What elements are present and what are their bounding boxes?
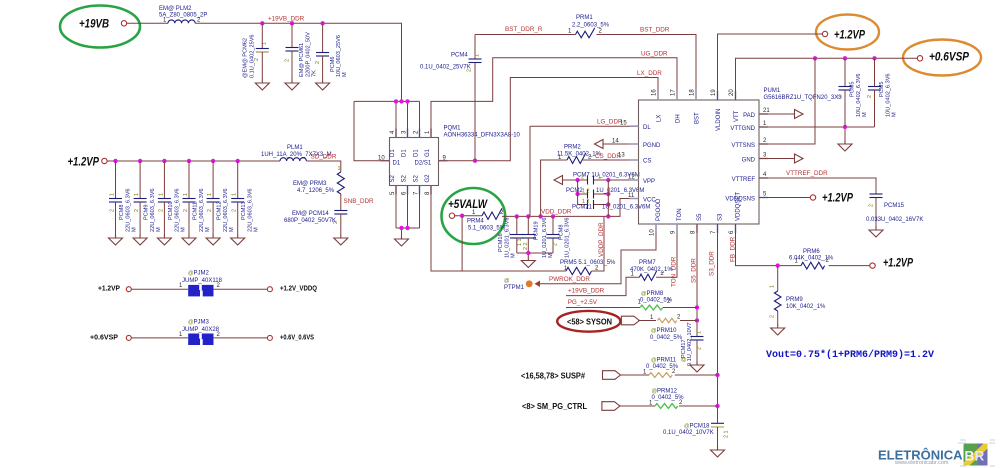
power symbol +19VB: [60, 6, 140, 48]
svg-text:+19VB_DDR: +19VB_DDR: [568, 287, 605, 294]
svg-text:D1: D1: [393, 161, 401, 167]
svg-text:TON_DDR: TON_DDR: [671, 256, 678, 287]
capacitor PCM7 (VPP): [554, 173, 640, 185]
ground (VDD caps): [521, 257, 535, 268]
inductor PLM1: [261, 145, 332, 161]
svg-text:PRM4: PRM4: [467, 219, 484, 225]
svg-text:470K_0402_1%: 470K_0402_1%: [630, 267, 673, 273]
wire +19VB to PLM2: [127, 22, 168, 24]
svg-text:0_0402_5%: 0_0402_5%: [650, 335, 683, 341]
svg-text:EM@ PLM2: EM@ PLM2: [159, 6, 192, 12]
capacitor PCM61: [285, 23, 318, 79]
svg-text:22U_0603_6.3V6: 22U_0603_6.3V6: [150, 188, 156, 232]
capacitor PCM62: [243, 23, 269, 79]
svg-text:D1: D1: [414, 149, 420, 157]
svg-text:2: 2: [414, 130, 420, 134]
svg-text:21: 21: [763, 108, 770, 114]
ground (PCM15): [869, 226, 883, 237]
svg-text:+0.6VSP: +0.6VSP: [90, 335, 118, 342]
svg-text:+1.2VP: +1.2VP: [834, 30, 865, 42]
wire BST_DDR_R: [475, 34, 571, 36]
svg-text:0.033U_0402_16V7K: 0.033U_0402_16V7K: [866, 217, 923, 223]
wire VTT rail to +0.6VSP: [736, 58, 918, 100]
svg-text:14: 14: [612, 139, 619, 145]
svg-text:EM@ PRM3: EM@ PRM3: [293, 181, 327, 187]
svg-text:M: M: [132, 227, 138, 232]
wire +19VB bus to D1 pins: [354, 101, 420, 137]
wire S3 column: [717, 224, 719, 423]
svg-text:1 2: 1 2: [582, 199, 590, 205]
svg-text:22U_0603_6.3V6: 22U_0603_6.3V6: [174, 188, 180, 232]
ground (PCM6): [316, 79, 330, 90]
svg-text:2 2: 2 2: [523, 243, 529, 251]
svg-text:PCM11: PCM11: [193, 202, 199, 220]
capacitor PCM6: [315, 23, 348, 79]
wire cap bottoms bus: [517, 253, 553, 257]
capacitor PCM8: [109, 161, 138, 234]
svg-text:PAD: PAD: [743, 113, 756, 119]
svg-text:2: 2: [207, 209, 213, 212]
svg-text:PCM15: PCM15: [884, 203, 905, 209]
svg-text:+19VB: +19VB: [79, 19, 109, 31]
svg-text:M: M: [548, 253, 554, 258]
ground (PCM8): [109, 234, 123, 245]
svg-text:VTTREF: VTTREF: [732, 177, 756, 183]
svg-text:B: B: [965, 449, 975, 464]
svg-text:PCM5: PCM5: [879, 81, 885, 97]
svg-text:2: 2: [232, 209, 238, 212]
svg-text:7: 7: [414, 191, 420, 195]
svg-text:VTTREF_DDR: VTTREF_DDR: [786, 170, 828, 177]
node dots S5: [695, 305, 699, 309]
wire S5 column: [696, 224, 698, 337]
svg-text:VTT: VTT: [734, 110, 740, 122]
svg-text:PRM9: PRM9: [786, 297, 803, 303]
svg-text:10U_0402_6.3V6: 10U_0402_6.3V6: [856, 73, 862, 117]
ground (PRM9): [771, 324, 785, 335]
svg-text:+19VB_DDR: +19VB_DDR: [268, 16, 305, 23]
svg-text:3: 3: [763, 153, 767, 159]
svg-text:PGND: PGND: [643, 143, 661, 149]
svg-text:@PRM11: @PRM11: [651, 358, 677, 364]
svg-text:1: 1: [183, 193, 189, 196]
svg-text:PCM13: PCM13: [241, 201, 247, 220]
node dots VDD_DDR: [515, 214, 519, 218]
svg-text:+1.2VP: +1.2VP: [68, 157, 100, 169]
svg-text:@PJM2: @PJM2: [188, 271, 209, 277]
svg-text:VLDOIN: VLDOIN: [716, 109, 722, 131]
svg-text:10U_0402_6.3V6: 10U_0402_6.3V6: [886, 73, 892, 117]
svg-text:10K_0402_1%: 10K_0402_1%: [786, 304, 826, 310]
svg-text:SNB_DDR: SNB_DDR: [344, 198, 375, 205]
svg-text:15: 15: [620, 121, 627, 127]
svg-text:PRM5 5.1_0603_5%: PRM5 5.1_0603_5%: [560, 260, 616, 266]
transistor PQM1 (dual MOSFET): [378, 126, 521, 196]
capacitor PCM17: [681, 322, 704, 366]
svg-text:1: 1: [598, 175, 601, 181]
svg-text:PCM19: PCM19: [534, 221, 540, 240]
svg-text:PCM4: PCM4: [451, 53, 468, 59]
capacitor PCM21: [572, 199, 650, 211]
svg-text:0.1U_0402_25V7K: 0.1U_0402_25V7K: [420, 65, 471, 71]
svg-text:2: 2: [581, 175, 584, 181]
node dots VPP row: [575, 178, 579, 182]
wire SUSP row: [621, 374, 650, 376]
svg-text:@PRM12: @PRM12: [652, 389, 678, 395]
svg-text:<8> SM_PG_CTRL: <8> SM_PG_CTRL: [522, 402, 587, 411]
resistor PRM9: [770, 266, 827, 324]
resistor PRM1: [568, 15, 610, 38]
svg-text:PRM7: PRM7: [639, 260, 656, 266]
svg-text:+1.2VP: +1.2VP: [883, 258, 913, 270]
svg-text:2: 2: [679, 400, 683, 406]
svg-text:S3: S3: [718, 213, 724, 221]
node dot VTTGND: [843, 125, 847, 129]
svg-text:2: 2: [677, 315, 681, 321]
capacitor PCM3: [867, 58, 898, 127]
capacitor PCM10: [158, 161, 187, 234]
svg-text:2: 2: [770, 315, 776, 318]
svg-text:2: 2: [869, 204, 875, 207]
svg-text:4: 4: [390, 130, 396, 134]
svg-text:0.1U_0402_10V7K: 0.1U_0402_10V7K: [663, 430, 714, 436]
svg-text:22U_0603_6.3V6: 22U_0603_6.3V6: [199, 188, 205, 232]
svg-text:18: 18: [690, 89, 696, 96]
svg-text:1: 1: [697, 331, 703, 334]
svg-text:5: 5: [390, 191, 396, 195]
ground (S2): [395, 235, 409, 246]
svg-text:2: 2: [183, 209, 189, 212]
node +0.6VSP jumper row: [90, 335, 314, 342]
svg-text:1U_0201_6.3V6: 1U_0201_6.3V6: [565, 218, 571, 258]
resistor PRM8 (zero ohm): [638, 291, 698, 310]
svg-text:1: 1: [568, 29, 572, 35]
svg-text:EM@ PCM61: EM@ PCM61: [299, 43, 305, 77]
svg-text:+1.2VP: +1.2VP: [98, 286, 120, 293]
svg-text:PWROK_DDR: PWROK_DDR: [549, 276, 590, 283]
svg-text:PCM21: PCM21: [572, 205, 593, 211]
svg-text:M: M: [180, 227, 186, 232]
power symbol +5VALW: [442, 188, 506, 244]
svg-text:VCC: VCC: [643, 198, 656, 204]
resistor PRM5 (VDDP): [560, 216, 616, 274]
svg-text:www.eletronicabr.com: www.eletronicabr.com: [894, 460, 949, 466]
wire VLDOIN to +1.2VP: [718, 34, 823, 100]
svg-text:M: M: [511, 253, 517, 258]
svg-text:10: 10: [650, 229, 656, 236]
ground (PCM18): [711, 446, 725, 457]
svg-text:+5VALW: +5VALW: [448, 199, 488, 211]
svg-text:17: 17: [671, 89, 677, 96]
test point PTPM1: [504, 278, 540, 291]
capacitor PCM15: [866, 194, 923, 226]
connector (SM_PG_CTRL): [602, 402, 620, 411]
svg-text:SD_DDR: SD_DDR: [311, 154, 337, 161]
svg-text:2.2_0603_5%: 2.2_0603_5%: [572, 23, 610, 29]
svg-text:5: 5: [763, 192, 767, 198]
node junction dots on +19VB_DDR: [260, 21, 264, 25]
svg-text:3: 3: [402, 130, 408, 134]
svg-text:PUM1: PUM1: [764, 88, 781, 94]
svg-text:2: 2: [158, 209, 164, 212]
svg-text:13: 13: [618, 153, 625, 159]
svg-text:PQM1: PQM1: [444, 126, 462, 132]
ground (VTTGND): [838, 140, 852, 151]
svg-text:S3_DDR: S3_DDR: [709, 251, 716, 276]
svg-text:1: 1: [475, 54, 481, 57]
svg-text:S2: S2: [402, 174, 408, 182]
wire cap rails: [578, 180, 609, 216]
wire +5VALW to PRM4: [455, 215, 482, 217]
svg-text:DH: DH: [676, 114, 682, 123]
svg-text:PRM1: PRM1: [576, 15, 593, 21]
svg-text:G1: G1: [425, 148, 431, 157]
capacitor PCM14: [284, 211, 347, 235]
svg-text:PCM8: PCM8: [119, 204, 125, 220]
capacitor PCM8b: [547, 216, 571, 258]
wire LG_DDR: [530, 126, 639, 216]
svg-text:PRM6: PRM6: [803, 249, 820, 255]
svg-text:2: 2: [217, 332, 221, 338]
svg-text:JUMP_40X28: JUMP_40X28: [182, 327, 220, 333]
node dot bus: [526, 251, 530, 255]
jumper PJM2: [179, 271, 223, 297]
node dots S2: [399, 226, 403, 230]
svg-text:@EM@ PCM62: @EM@ PCM62: [243, 38, 249, 78]
svg-text:<16,58,78> SUSP#: <16,58,78> SUSP#: [521, 372, 586, 381]
svg-text:0.1U_0402_10V7: 0.1U_0402_10V7: [687, 322, 693, 366]
svg-text:PGOOD: PGOOD: [656, 198, 662, 221]
wire PAD arrow: [759, 113, 795, 115]
resistor PRM12: [649, 389, 718, 409]
svg-text:2: 2: [553, 243, 559, 246]
wire VDDQSNS to +1.2VP: [759, 197, 810, 199]
ground (PCM10): [157, 234, 171, 245]
svg-text:4: 4: [763, 172, 767, 178]
op-amp U1 : PWM controller PUM1: [612, 88, 842, 236]
svg-text:M: M: [205, 227, 211, 232]
svg-text:1: 1: [770, 285, 776, 288]
svg-text:9: 9: [671, 230, 677, 234]
PQM1 pin stubs: [381, 129, 448, 195]
node dot FB: [776, 263, 780, 267]
ground (PCM9): [133, 234, 147, 245]
svg-text:DL: DL: [643, 125, 651, 131]
ground (PCM11): [182, 234, 196, 245]
svg-text:VPP: VPP: [643, 179, 655, 185]
wire +19VB_DDR rail: [195, 23, 401, 101]
capacitor PCM18: [663, 423, 730, 446]
capacitor PCM5: [838, 58, 869, 127]
svg-text:10U_0603_25V6: 10U_0603_25V6: [336, 35, 342, 77]
capacitor PCM13: [231, 161, 260, 234]
svg-text:22U_0603_6.3V6: 22U_0603_6.3V6: [223, 188, 229, 232]
svg-text:UG_DDR: UG_DDR: [641, 51, 668, 58]
wire VTTSNS: [759, 58, 815, 144]
svg-text:2: 2: [763, 138, 767, 144]
svg-text:D1: D1: [390, 149, 396, 157]
svg-text:M: M: [862, 112, 868, 117]
svg-text:PCM2: PCM2: [566, 188, 583, 194]
capacitor PCM2: [566, 188, 644, 199]
wire S2 pins to ground: [396, 186, 420, 236]
svg-text:PCM5: PCM5: [850, 81, 856, 97]
watermark logo: [878, 440, 995, 466]
svg-text:1U_0201_6.3V6: 1U_0201_6.3V6: [505, 218, 511, 258]
svg-text:PLM1: PLM1: [287, 145, 303, 151]
svg-text:VDD_DDR: VDD_DDR: [541, 209, 572, 216]
capacitor PCM19: [517, 216, 554, 258]
svg-text:1: 1: [338, 166, 341, 172]
svg-text:16: 16: [652, 89, 658, 96]
ground (PCM17): [690, 361, 704, 372]
node dot LX/PCM4: [473, 159, 477, 163]
power symbol +0.6VSP: [903, 40, 981, 76]
svg-text:PCM10: PCM10: [168, 201, 174, 220]
resistor PRM10: [650, 315, 697, 342]
svg-text:M: M: [229, 227, 235, 232]
svg-text:+0.6V_0.6VS: +0.6V_0.6VS: [280, 335, 314, 342]
svg-text:2 1: 2 1: [724, 431, 730, 439]
svg-text:BST: BST: [695, 112, 701, 124]
capacitor PCM9: [134, 161, 163, 234]
wire +5VALW down branch: [461, 216, 463, 271]
node dot +5VALW branch: [460, 214, 464, 218]
svg-text:PCM16: PCM16: [498, 233, 504, 252]
svg-text:1: 1: [232, 193, 238, 196]
svg-text:22U_0603_6.3V6: 22U_0603_6.3V6: [248, 188, 254, 232]
capacitor PCM16: [498, 216, 524, 258]
svg-text:D2/S1: D2/S1: [415, 161, 432, 167]
svg-text:0.1U_0402_25V6: 0.1U_0402_25V6: [250, 34, 256, 78]
wire SM_PG row: [620, 405, 655, 407]
svg-text:6: 6: [402, 191, 408, 195]
svg-text:AONH36334_DFN3X3A8-10: AONH36334_DFN3X3A8-10: [444, 133, 521, 139]
svg-text:1: 1: [425, 130, 431, 134]
svg-text:Vout=0.75*(1+PRM6/PRM9)=1.2V: Vout=0.75*(1+PRM6/PRM9)=1.2V: [766, 349, 934, 361]
svg-text:PTPM1: PTPM1: [504, 285, 525, 291]
PUM1 pin stubs: [630, 91, 769, 233]
svg-text:2: 2: [285, 59, 291, 62]
svg-text:GND: GND: [742, 158, 756, 164]
ground (PCM62): [255, 79, 269, 90]
svg-text:@PJM3: @PJM3: [188, 320, 209, 326]
svg-text:D1: D1: [402, 149, 408, 157]
svg-text:1: 1: [134, 193, 140, 196]
resistor PRM4: [467, 208, 506, 231]
svg-text:1U_0201_6.3V6M: 1U_0201_6.3V6M: [596, 188, 644, 194]
svg-text:PCM9: PCM9: [144, 204, 150, 220]
ground (PCM12): [206, 234, 220, 245]
svg-text:VTTSNS: VTTSNS: [731, 143, 755, 149]
wire GND arrow: [759, 158, 795, 160]
svg-text:VDDQSET: VDDQSET: [736, 192, 742, 221]
power symbol +1.2VP rail: [68, 157, 108, 169]
svg-text:2: 2: [110, 209, 116, 212]
power symbol SYSON: [557, 311, 620, 332]
svg-text:VTTGND: VTTGND: [730, 126, 755, 132]
svg-text:7: 7: [711, 230, 717, 234]
svg-text:R: R: [975, 449, 985, 464]
svg-text:2: 2: [134, 209, 140, 212]
node dots D1 bus: [394, 99, 398, 103]
svg-text:S5_DDR: S5_DDR: [691, 258, 698, 283]
power symbol +1.2VP (top): [816, 15, 879, 50]
svg-text:680P_0402_50V7K: 680P_0402_50V7K: [284, 218, 336, 224]
resistor PRM6: [789, 249, 870, 269]
svg-text:19: 19: [711, 89, 717, 96]
resistor PRM2 (CS): [541, 145, 639, 217]
svg-text:+0.6VSP: +0.6VSP: [929, 52, 969, 64]
svg-text:@PRM8: @PRM8: [641, 291, 664, 297]
svg-text:2: 2: [467, 69, 473, 72]
svg-text:6: 6: [729, 230, 735, 234]
svg-text:S2: S2: [390, 174, 396, 182]
svg-text:+1.2V_VDDQ: +1.2V_VDDQ: [280, 286, 317, 293]
capacitor PCM11: [183, 161, 212, 234]
svg-text:VDDP_DDR: VDDP_DDR: [598, 222, 605, 257]
svg-text:1: 1: [763, 121, 767, 127]
node dots PCM2 row: [575, 192, 579, 196]
svg-text:1: 1: [158, 193, 164, 196]
svg-text:M: M: [342, 72, 348, 77]
svg-text:CS: CS: [643, 159, 651, 165]
svg-text:22U_0603_6.3V6: 22U_0603_6.3V6: [126, 188, 132, 232]
svg-text:G5616BRZ1U_TQFN20_3X3: G5616BRZ1U_TQFN20_3X3: [764, 95, 843, 101]
ground (PCM13): [231, 234, 245, 245]
wire +1.2VP rail: [107, 160, 280, 162]
svg-text:EM@ PCM14: EM@ PCM14: [292, 211, 329, 217]
power +1.2VP (FB): [870, 263, 875, 268]
svg-text:1: 1: [207, 193, 213, 196]
connector (SUSP#): [603, 371, 621, 380]
resistor PRM7: [630, 224, 677, 280]
svg-text:@: @: [504, 278, 509, 284]
node dots on +1.2VP rail: [113, 159, 117, 163]
svg-text:LX: LX: [657, 115, 663, 122]
svg-text:@PRM10: @PRM10: [651, 328, 677, 334]
wire VTTGND: [759, 127, 875, 140]
svg-text:2: 2: [599, 29, 603, 35]
wire pin10 loop: [354, 101, 390, 160]
svg-text:TON: TON: [677, 208, 683, 221]
svg-text:8: 8: [425, 191, 431, 195]
ground (PCM14): [334, 234, 348, 245]
svg-text:<58> SYSON: <58> SYSON: [567, 318, 612, 327]
svg-text:1: 1: [110, 193, 116, 196]
svg-text:BST_DDR_R: BST_DDR_R: [505, 26, 543, 33]
wire G1 to UG_DDR: [431, 58, 677, 138]
svg-text:2: 2: [315, 61, 321, 64]
inductor PLM2: [159, 6, 207, 24]
svg-text:BST_DDR: BST_DDR: [640, 27, 670, 34]
svg-text:20: 20: [729, 89, 735, 96]
node dots VTT rail: [813, 56, 817, 60]
svg-text:7K: 7K: [312, 70, 318, 77]
svg-text:@PCM18: @PCM18: [684, 424, 710, 430]
ground (PCM61): [285, 79, 299, 90]
jumper PJM3: [179, 320, 221, 346]
svg-text:PCM12: PCM12: [217, 201, 223, 220]
svg-text:PG_+2.5V: PG_+2.5V: [568, 299, 598, 306]
wire SYSON row: [638, 320, 656, 322]
resistor PRM3: [293, 166, 344, 211]
node dots S3: [715, 373, 719, 377]
node dot PCM21 row: [606, 202, 610, 206]
svg-text:2: 2: [838, 95, 844, 98]
svg-text:PRM2: PRM2: [564, 145, 581, 151]
node +1.2VP jumper row: [98, 286, 317, 293]
